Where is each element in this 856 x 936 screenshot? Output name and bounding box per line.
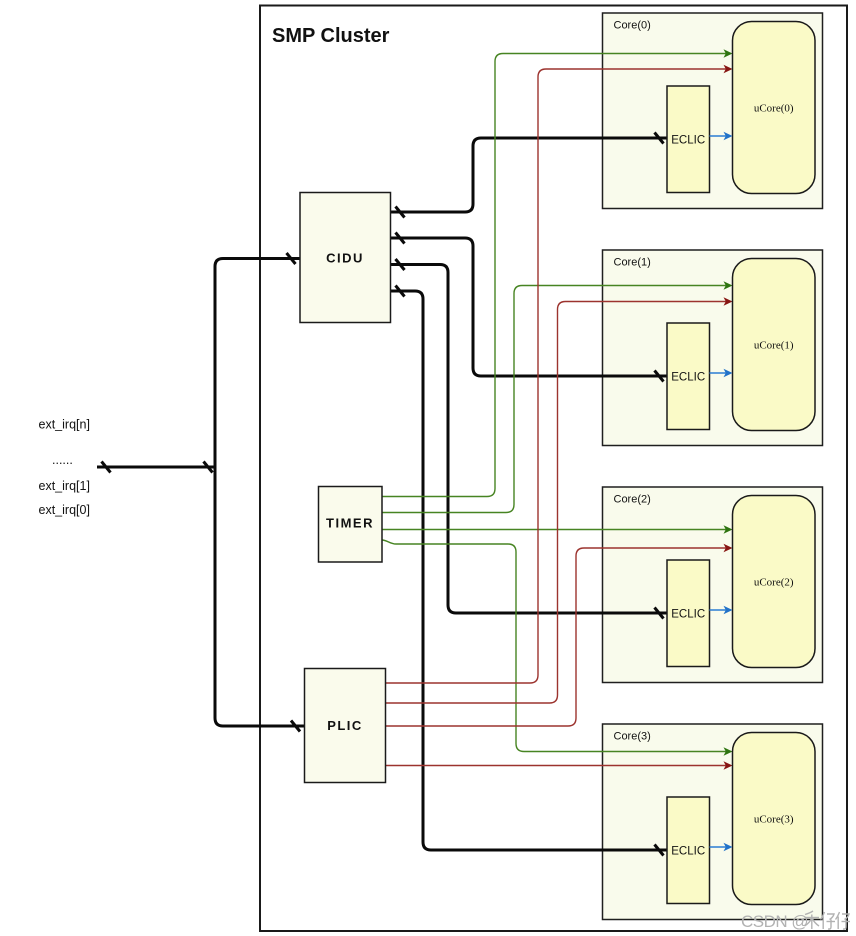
block ECLIC Core(3) (667, 797, 710, 904)
block uCore(0) (733, 22, 816, 194)
svg-text:CSDN @: CSDN @ (741, 912, 808, 931)
svg-text:ECLIC: ECLIC (671, 372, 705, 384)
svg-text:uCore(3): uCore(3) (754, 814, 794, 826)
bus slash ext_irq left (102, 462, 111, 473)
svg-text:ext_irq[0]: ext_irq[0] (39, 503, 90, 517)
wire TIMER out4 to uCore(3) green (382, 540, 727, 752)
arrow red into uCore(0) (724, 65, 733, 73)
block CIDU (300, 193, 391, 323)
watermark glyph he (805, 911, 820, 929)
wire trunk vertical to CIDU and PLIC (215, 259, 305, 727)
bus slash PLIC input (291, 721, 300, 732)
svg-text:CIDU: CIDU (326, 251, 364, 266)
wire CIDU port3 to ECLIC Core(2) (391, 265, 668, 614)
wire CIDU port4 to ECLIC Core(3) (391, 291, 668, 850)
SMP Cluster boundary box (260, 6, 847, 932)
arrow green into uCore(3) (724, 747, 733, 755)
svg-text:Core(1): Core(1) (614, 257, 651, 269)
wire CIDU port2 to ECLIC Core(1) (391, 238, 668, 376)
wire PLIC out2 to uCore(1) red (386, 302, 728, 704)
wire ext_irq bus horizontal (97, 466, 215, 469)
svg-text:Core(3): Core(3) (614, 731, 651, 743)
core box Core(0) (603, 13, 823, 209)
wire TIMER out2 to uCore(1) green (382, 286, 727, 513)
svg-text:SMP Cluster: SMP Cluster (272, 25, 390, 47)
block ECLIC Core(2) (667, 560, 710, 667)
svg-text:ECLIC: ECLIC (671, 609, 705, 621)
bus slash CIDU port1 (396, 207, 405, 218)
block ECLIC Core(0) (667, 86, 710, 193)
arrow blue into uCore(2) (724, 606, 733, 614)
svg-text:PLIC: PLIC (327, 718, 363, 733)
svg-text:......: ...... (52, 453, 73, 467)
bus slash ECLIC3 input (655, 845, 664, 856)
svg-text:uCore(0): uCore(0) (754, 103, 794, 115)
wire TIMER out3 to uCore(2) green (382, 529, 727, 531)
arrow red into uCore(1) (724, 297, 733, 305)
block PLIC (305, 669, 386, 783)
arrow blue into uCore(0) (724, 132, 733, 140)
svg-text:Core(0): Core(0) (614, 20, 651, 32)
wire blue ECLIC0 to uCore0 (710, 135, 727, 137)
bus slash CIDU port3 (396, 259, 405, 270)
wire PLIC out1 to uCore(0) red (386, 69, 728, 683)
watermark glyph zai2 (836, 912, 851, 929)
block uCore(3) (733, 733, 816, 905)
wire PLIC out4 to uCore(3) red (386, 765, 728, 767)
block ECLIC Core(1) (667, 323, 710, 430)
core box Core(3) (603, 724, 823, 920)
svg-text:ECLIC: ECLIC (671, 135, 705, 147)
svg-text:uCore(2): uCore(2) (754, 577, 794, 589)
wire CIDU port1 to ECLIC Core(0) (391, 138, 668, 212)
wire blue ECLIC3 to uCore3 (710, 846, 727, 848)
block uCore(1) (733, 259, 816, 431)
arrow green into uCore(2) (724, 525, 733, 533)
arrow blue into uCore(1) (724, 369, 733, 377)
arrow blue into uCore(3) (724, 843, 733, 851)
bus slash ext_irq right (204, 462, 213, 473)
wire TIMER out1 to uCore(0) green (382, 54, 727, 497)
arrow red into uCore(3) (724, 761, 733, 769)
bus slash ECLIC2 input (655, 608, 664, 619)
wire blue ECLIC2 to uCore2 (710, 609, 727, 611)
arrow green into uCore(1) (724, 281, 733, 289)
wire blue ECLIC1 to uCore1 (710, 372, 727, 374)
block TIMER (319, 487, 383, 563)
core box Core(1) (603, 250, 823, 446)
bus slash CIDU port4 (396, 286, 405, 297)
svg-text:TIMER: TIMER (326, 516, 374, 531)
bus slash CIDU input (287, 253, 296, 264)
block uCore(2) (733, 496, 816, 668)
bus slash CIDU port2 (396, 233, 405, 244)
svg-text:ext_irq[1]: ext_irq[1] (39, 479, 90, 493)
arrow green into uCore(0) (724, 49, 733, 57)
bus slash ECLIC1 input (655, 371, 664, 382)
svg-text:Core(2): Core(2) (614, 494, 651, 506)
core box Core(2) (603, 487, 823, 683)
watermark glyph zai1 (821, 912, 836, 929)
svg-text:uCore(1): uCore(1) (754, 340, 794, 352)
bus slash ECLIC0 input (655, 133, 664, 144)
svg-text:ext_irq[n]: ext_irq[n] (39, 418, 90, 432)
wire PLIC out3 to uCore(2) red (386, 548, 728, 726)
svg-text:ECLIC: ECLIC (671, 846, 705, 858)
arrow red into uCore(2) (724, 544, 733, 552)
